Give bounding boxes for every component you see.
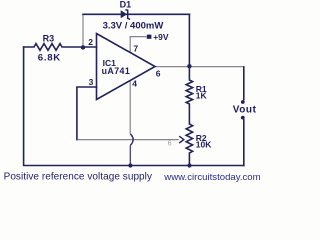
svg-text:6: 6 xyxy=(168,141,172,148)
svg-text:+9V: +9V xyxy=(153,32,169,42)
svg-text:Positive reference voltage sup: Positive reference voltage supply xyxy=(4,172,152,183)
svg-text:7: 7 xyxy=(133,43,138,53)
svg-text:Vout: Vout xyxy=(233,105,257,116)
svg-text:3: 3 xyxy=(89,77,94,87)
svg-text:www.circuitstoday.com: www.circuitstoday.com xyxy=(163,172,260,183)
svg-text:R3: R3 xyxy=(43,33,55,43)
svg-text:6.8K: 6.8K xyxy=(38,53,61,64)
svg-text:6: 6 xyxy=(156,69,161,79)
svg-text:3.3V / 400mW: 3.3V / 400mW xyxy=(103,21,164,32)
svg-text:D1: D1 xyxy=(120,0,132,9)
svg-text:10K: 10K xyxy=(196,140,212,150)
svg-text:2: 2 xyxy=(88,37,93,47)
svg-text:1K: 1K xyxy=(196,91,208,101)
svg-text:uA741: uA741 xyxy=(102,66,131,76)
svg-text:4: 4 xyxy=(132,79,137,89)
